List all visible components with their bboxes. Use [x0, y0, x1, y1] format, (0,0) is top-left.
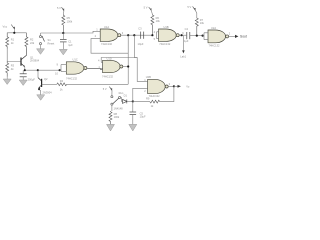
svg-text:10µF: 10µF [140, 115, 146, 119]
svg-text:2N3904: 2N3904 [43, 91, 53, 95]
svg-text:R7: R7 [200, 18, 204, 22]
node junction dot rail [13, 32, 15, 34]
svg-text:2: 2 [144, 89, 146, 93]
terminal arrow Vo [174, 85, 178, 87]
svg-text:5 V: 5 V [144, 6, 148, 10]
wire U1B output [182, 34, 187, 36]
node dot emitter [24, 69, 26, 71]
power 5V arrow over R6 [149, 7, 153, 14]
wire reset node rail to U1A pin1 [41, 31, 101, 33]
svg-text:1µF: 1µF [68, 43, 73, 47]
power Vcc supply arrow [11, 25, 15, 33]
resistor R9 feedback horizontal [150, 100, 160, 103]
ground under C5 [129, 124, 137, 131]
svg-text:C4: C4 [185, 27, 189, 31]
svg-text:Vo: Vo [186, 85, 190, 89]
svg-text:10: 10 [55, 72, 58, 76]
svg-text:3: 3 [169, 82, 171, 86]
node dot R6 wire [151, 34, 153, 36]
terminal arrow down Lab1 [182, 50, 185, 53]
wire R9 to diode node [133, 101, 150, 103]
svg-text:D1: D1 [124, 93, 128, 97]
switch S1 Reset [39, 33, 44, 49]
svg-text:1N4148: 1N4148 [114, 106, 124, 110]
svg-text:2N3904: 2N3904 [30, 58, 40, 62]
svg-text:5: 5 [154, 37, 156, 41]
ground under R3 [3, 77, 11, 85]
wire emitter node row y70 [25, 69, 61, 71]
wire row2 gate2 top input [101, 58, 137, 63]
switch S2 Run [111, 96, 123, 111]
node dot U1B out [181, 34, 183, 36]
wire Q2 emitter to ground [38, 88, 40, 95]
svg-text:U1B: U1B [164, 25, 169, 29]
svg-text:74HC132: 74HC132 [209, 44, 221, 48]
ground under C1 [59, 49, 67, 55]
svg-text:S1: S1 [48, 38, 52, 42]
node dot gate input [59, 69, 61, 71]
ground under Q2 [37, 95, 45, 101]
svg-text:4: 4 [154, 30, 156, 34]
wire vertical x128 [127, 35, 129, 84]
wire U1D bottom input from U1C out [87, 68, 103, 69]
svg-text:10k: 10k [200, 21, 205, 25]
svg-text:Reset: Reset [48, 41, 55, 45]
capacitor C4 [187, 32, 190, 39]
capacitor C1 [60, 33, 67, 49]
svg-text:R5: R5 [67, 16, 71, 20]
op-amp U2B nand gate row3 [147, 79, 174, 93]
wire vertical x135.5 to U2B top input [134, 35, 147, 81]
svg-text:U1A: U1A [104, 25, 109, 29]
capacitor C3 [141, 32, 144, 39]
terminal arrow Sout [235, 35, 238, 38]
svg-text:1µF: 1µF [184, 39, 189, 43]
svg-text:3: 3 [122, 31, 124, 35]
svg-text:10k: 10k [156, 19, 161, 23]
wire C4 to U2A [190, 35, 203, 37]
wire R4 to vertical x128 [67, 83, 128, 85]
op-amp U1C nand gate row2 [60, 62, 103, 74]
svg-text:Sout: Sout [240, 35, 247, 39]
svg-text:74HC132: 74HC132 [149, 94, 161, 98]
svg-text:2: 2 [95, 34, 97, 38]
power 5V arrow over R5 [62, 7, 65, 14]
resistor R7 10k vertical [195, 17, 198, 35]
capacitor C2 200uF [20, 70, 27, 80]
svg-text:R6: R6 [156, 16, 160, 20]
svg-text:9: 9 [57, 63, 59, 67]
node dot emitter Q2 [38, 88, 40, 90]
resistor R1 [6, 33, 9, 49]
node dot out U1A a [127, 34, 129, 36]
ground under C2 [19, 80, 27, 86]
wire Q2 collector up [37, 70, 39, 77]
svg-text:2: 2 [229, 31, 231, 35]
resistor R2 [25, 33, 28, 49]
power 5V arrow run switch [109, 87, 112, 96]
diode D1 [123, 99, 133, 103]
node dot reset rail [62, 32, 64, 34]
svg-text:R4: R4 [60, 79, 64, 83]
svg-text:74HC132: 74HC132 [159, 42, 171, 46]
svg-text:U2B: U2B [146, 75, 151, 79]
wire Q1 collector [26, 49, 28, 56]
op-amp U1D nand gate row2 [100, 60, 128, 72]
svg-text:100k: 100k [67, 20, 73, 24]
node dot U2B out [173, 85, 175, 87]
svg-text:U1C: U1C [73, 57, 78, 61]
svg-text:10µF: 10µF [138, 42, 144, 46]
svg-text:U2A: U2A [211, 26, 216, 30]
node dot Q2 collector [37, 69, 39, 71]
transistor Q1 [21, 55, 27, 67]
wire top-left rail [7, 32, 26, 34]
svg-text:5 V: 5 V [187, 5, 191, 9]
wire Q1 emitter down [24, 67, 26, 71]
resistor R5 100k vertical [62, 15, 65, 34]
svg-text:74HC132: 74HC132 [101, 42, 113, 46]
node dot U1D out [127, 65, 129, 67]
transistor Q2 [38, 78, 42, 89]
svg-text:4: 4 [98, 59, 100, 63]
svg-text:6: 6 [182, 31, 184, 35]
resistor R4 1k horizontal [57, 83, 67, 86]
resistor R3 lower-left [6, 62, 9, 77]
svg-text:5 V: 5 V [103, 87, 107, 91]
svg-text:C5: C5 [140, 111, 144, 115]
svg-text:100k: 100k [114, 115, 120, 119]
wire U1A output [121, 34, 152, 36]
node dot R7 [196, 35, 198, 37]
wire R2 to collector [25, 49, 27, 56]
wire R1 to base node [7, 49, 20, 62]
svg-text:C3: C3 [138, 27, 142, 31]
op-amp U1B nand gate [157, 29, 182, 41]
node dot U2A input [202, 35, 204, 37]
svg-text:74HC132: 74HC132 [66, 76, 78, 80]
resistor R6 10k vertical [151, 14, 154, 35]
svg-text:R8: R8 [114, 112, 118, 116]
svg-text:22k: 22k [30, 41, 35, 45]
wire feedback U2B [160, 86, 174, 101]
svg-text:5 V: 5 V [57, 6, 61, 10]
power 5V arrow over R7 [193, 6, 197, 17]
svg-text:Vcc: Vcc [3, 25, 8, 29]
wire test point drop [182, 36, 184, 51]
wire U1A pin2 feedback [91, 39, 128, 54]
ground under R8 [107, 124, 115, 131]
svg-text:Q2: Q2 [44, 77, 48, 81]
svg-text:1k: 1k [151, 104, 154, 108]
wire Q2 base [42, 83, 57, 85]
svg-text:Lab1: Lab1 [180, 54, 186, 58]
op-amp U2A nand gate [203, 30, 236, 43]
svg-text:R9: R9 [146, 97, 150, 101]
svg-text:74HC132: 74HC132 [102, 75, 114, 79]
resistor R8 100k vertical [109, 111, 112, 124]
node dot diode out [132, 100, 134, 102]
node dot out U1A b [133, 34, 135, 36]
op-amp U1A nand gate [100, 29, 121, 41]
ground under S1 [37, 49, 45, 55]
svg-text:1k: 1k [60, 88, 63, 92]
wire to U2B bottom input [133, 88, 147, 101]
svg-text:U1D: U1D [107, 57, 112, 61]
capacitor C5 [130, 101, 137, 124]
svg-text:200µF: 200µF [28, 77, 36, 81]
